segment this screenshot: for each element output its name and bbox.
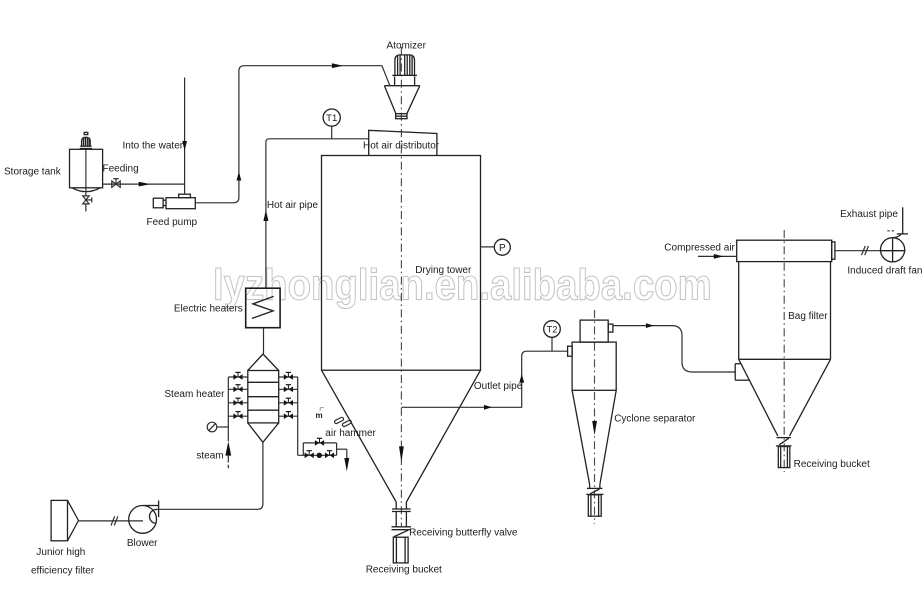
induced draft fan (880, 234, 906, 262)
right row 2 (279, 385, 298, 392)
svg-text:Feeding: Feeding (103, 164, 139, 175)
bypass ball (filled circle) (317, 453, 322, 458)
hot air distributor box (369, 130, 437, 155)
bag filter centerline (783, 230, 785, 472)
svg-text:air hammer: air hammer (325, 428, 376, 439)
left valve manifold (227, 377, 229, 441)
bag filter cone (739, 359, 831, 436)
bag filter butterfly valve (776, 438, 792, 446)
small gray mark above m (320, 408, 324, 411)
arrow right on top feed line (332, 63, 343, 68)
hot air pipe (horizontal + riser) (266, 139, 369, 288)
cyclone top box (580, 320, 608, 342)
feed pump (153, 194, 195, 209)
svg-text:efficiency filter: efficiency filter (31, 565, 95, 576)
svg-text:Storage tank: Storage tank (4, 167, 62, 178)
storage tank agitator motor (80, 132, 92, 148)
cyclone outlet flange (608, 324, 613, 332)
gauge T2 (544, 321, 561, 352)
svg-text:Junior high: Junior high (36, 547, 85, 558)
atomizer cone (384, 86, 419, 114)
electric heater box (246, 288, 280, 328)
left row 2 (228, 385, 248, 392)
cyclone inlet flange (568, 346, 573, 356)
steam heater bottom cone (248, 423, 279, 442)
arrow down inside cyclone (592, 421, 597, 435)
svg-text:Exhaust pipe: Exhaust pipe (840, 209, 898, 220)
pipe: heater to steam heater (263, 328, 265, 354)
junior high efficiency filter (51, 500, 78, 540)
gauge P (481, 239, 511, 255)
bag filter top header (737, 240, 832, 261)
svg-text:Steam heater: Steam heater (164, 389, 225, 400)
receiving butterfly valve (tower) (392, 527, 412, 537)
pipe: cyclone outlet to bag filter (613, 326, 735, 372)
cyclone cone (572, 390, 616, 484)
svg-text:Induced draft fan: Induced draft fan (847, 266, 922, 277)
bypass drain arrow (344, 458, 349, 471)
blower (129, 501, 159, 534)
drying tower centerline (dash-dot) (400, 47, 402, 526)
atomizer neck (395, 76, 415, 85)
right row 4 (279, 412, 298, 419)
pipe: filter to blower (79, 520, 144, 522)
arrow right on outlet pipe (484, 405, 492, 410)
feeding valve (112, 179, 120, 188)
svg-text:P: P (499, 243, 506, 254)
tower neck and flange (392, 502, 411, 527)
drying tower shell (322, 156, 481, 371)
arrow down on water riser (182, 141, 187, 151)
svg-text:T2: T2 (546, 324, 557, 335)
pipe: pump discharge up and over to atomizer (195, 66, 389, 203)
suction pipe to fan (835, 250, 881, 252)
air hammer symbol (334, 414, 352, 429)
svg-text:Bag filter: Bag filter (788, 311, 828, 322)
svg-text:Outlet pipe: Outlet pipe (474, 381, 523, 392)
outlet pipe (401, 351, 567, 407)
svg-text:Compressed air: Compressed air (664, 243, 735, 254)
svg-text:Hot air pipe: Hot air pipe (267, 200, 319, 211)
arrow up on hot air riser (263, 210, 268, 221)
steam heater valve rows: left row 1 (228, 372, 248, 379)
bag filter body (739, 262, 831, 360)
bypass bottom valve 1 (305, 451, 314, 458)
right row 3 (279, 398, 298, 405)
svg-text:Blower: Blower (127, 538, 158, 549)
right valve manifold (297, 377, 299, 455)
receiving bucket (tower) (393, 537, 408, 563)
svg-text:Feed pump: Feed pump (147, 217, 198, 228)
drying tower cone (322, 370, 481, 502)
arrow up on outlet riser (519, 374, 524, 383)
watermark lyzhonglian.en.alibaba.com (213, 260, 712, 309)
steam pressure gauge (207, 422, 228, 432)
compressed air line (698, 255, 737, 257)
steam heater top cone (248, 354, 279, 371)
svg-text:Receiving butterfly valve: Receiving butterfly valve (409, 527, 518, 538)
cyclone body (572, 342, 616, 390)
left row 4 (228, 412, 248, 419)
svg-text:steam: steam (196, 451, 223, 462)
bypass bottom valve 2 (325, 451, 334, 458)
bypass loop (298, 443, 347, 458)
arrow up on discharge riser (237, 172, 242, 181)
gauge T1 (323, 109, 340, 139)
svg-text:T1: T1 (326, 113, 337, 124)
storage tank (70, 149, 103, 192)
atomizer outlet flange (396, 114, 407, 119)
svg-text:Electric heaters: Electric heaters (174, 304, 243, 315)
cyclone centerline (594, 310, 596, 524)
pipe: blower discharge to steam heater (159, 442, 263, 509)
svg-text:m: m (316, 411, 323, 420)
bypass top valve (315, 438, 324, 445)
pipe break symbol (862, 246, 869, 255)
svg-text:Receiving bucket: Receiving bucket (366, 565, 442, 576)
water inlet riser (184, 78, 186, 195)
arrow on cyclone outlet pipe (646, 323, 654, 328)
svg-text:Receiving bucket: Receiving bucket (794, 459, 870, 470)
arrow compressed air (714, 254, 724, 259)
svg-text:Hot air distributor: Hot air distributor (363, 140, 440, 151)
bag filter inlet flange (735, 364, 749, 381)
svg-text:Atomizer: Atomizer (387, 40, 427, 51)
bag filter outlet flange (832, 242, 835, 259)
electric heater element zigzag (252, 296, 274, 318)
cyclone receiving bucket (588, 495, 601, 516)
bag filter receiving bucket (778, 447, 790, 468)
steam heater body (248, 371, 279, 423)
svg-text:Cyclone separator: Cyclone separator (614, 413, 696, 424)
arrow down inside tower cone (399, 446, 404, 462)
pipe: tank outlet to riser (103, 183, 185, 185)
exhaust pipe (887, 207, 908, 234)
svg-text:Drying tower: Drying tower (415, 265, 472, 276)
arrow on feeding pipe (139, 182, 151, 187)
steam inlet arrow (225, 441, 231, 455)
svg-text:Into the water: Into the water (123, 141, 184, 152)
right row 1 (279, 372, 298, 379)
pipe break symbol (blower inlet) (111, 516, 118, 525)
atomizer motor (392, 55, 417, 76)
left row 3 (228, 398, 248, 405)
storage tank drain valve (83, 192, 92, 212)
cyclone butterfly valve (586, 484, 603, 494)
